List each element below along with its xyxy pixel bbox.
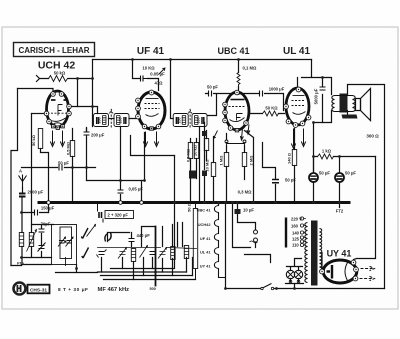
resistor box UL cathode [292, 150, 296, 166]
dial lamp 2 [294, 270, 302, 278]
wire 50pF to UBC top [206, 94, 235, 116]
resistor box 0.5M mid [188, 143, 192, 159]
trimmer arrow antenna padder [87, 225, 96, 237]
trimmer MF2 [158, 248, 167, 259]
wire x375 to UY [354, 157, 376, 260]
wire FT2 stub [339, 204, 341, 208]
tube UY41 internals [327, 263, 348, 281]
wire 50pF branch [263, 143, 276, 202]
wire x253 column [245, 131, 254, 202]
phono terminal 1 [254, 230, 258, 234]
wire 1000pF link [239, 94, 284, 111]
lamp socket dots [289, 280, 292, 283]
capacitor 1000pF [260, 91, 263, 97]
coil MF2 [171, 247, 175, 260]
tube UCH42 pins [44, 92, 71, 130]
switch contact blade upper [81, 228, 88, 239]
electrolytic 50uF no2 [335, 173, 344, 182]
title box CARISCH - LEHAR [14, 43, 95, 57]
capacitor MF1 fixed [97, 250, 107, 258]
mains switch [260, 284, 274, 289]
wire UL41 plate loop [298, 60, 332, 95]
IF transformer IFT2 secondary box [192, 114, 207, 127]
dial lamp 1 [286, 270, 294, 278]
mains voltage taps [300, 217, 303, 247]
wire component row links [98, 248, 197, 249]
wire 440pF drop [131, 233, 133, 247]
capacitor 50pF det [272, 180, 279, 183]
wire phono link [245, 243, 271, 263]
wire x144 from UF area [144, 133, 146, 181]
tube UBC41 diode arrows [240, 125, 250, 141]
wire left column x17 [11, 89, 18, 266]
IF transformer IFT1 primary box [94, 114, 109, 127]
resistor dropper box heater [193, 209, 197, 269]
wire rail drop x238 UBC plate [238, 60, 240, 93]
wire x75 drop [56, 272, 98, 274]
output transformer [332, 94, 355, 113]
capacitor 200pF IFT1 [84, 132, 90, 138]
IF transformer IFT2 tuning arrow [188, 110, 191, 128]
power transformer core [311, 221, 318, 286]
wire lamp top feed [287, 259, 303, 271]
heater chain castellation [214, 203, 225, 278]
wire osc grid column x31 [31, 114, 33, 233]
capacitor 150pF [35, 210, 38, 216]
electrolytic 50uF no1 [309, 173, 318, 182]
wire 150pF branch [22, 212, 49, 214]
IF transformer IFT2 primary box [173, 114, 188, 127]
wire x199 drop [199, 127, 201, 202]
tube UCH42 cathode arrows [50, 131, 64, 147]
wire mains bar taps [304, 219, 306, 246]
capacitor 440pF [129, 239, 135, 242]
wire MF bundle [98, 269, 196, 280]
tube UCH42 internals [48, 100, 69, 125]
tube UY41 envelope [323, 260, 357, 283]
wire x48 column [41, 149, 49, 213]
power transformer secondary winding [320, 229, 322, 271]
capacitor 70pF padder [39, 229, 45, 232]
wire mains bottom [227, 288, 385, 290]
phono terminal 2 [254, 238, 258, 242]
resistor box 2M [242, 153, 246, 167]
trimmer MF1 core arrow [140, 246, 148, 258]
bus terminal open circles [47, 201, 51, 205]
resistor box 20k mid [194, 143, 198, 159]
wire thick MF feed [155, 227, 157, 286]
node antenna input terminal [37, 76, 49, 82]
tube UBC41 envelope [225, 92, 249, 130]
capacitor 0.05uF top [141, 76, 148, 82]
tube UL41 cathode arrows [291, 129, 305, 149]
wire x244 column [244, 146, 246, 180]
trimmer arrow at 0.05uF [159, 68, 166, 75]
wire x313 reservoir [313, 157, 315, 202]
wire y224 link [32, 224, 54, 226]
wire heater chain top [218, 203, 220, 205]
wire osc switch [108, 233, 130, 242]
coil antenna primary [19, 233, 23, 247]
grid-leak terminals [225, 140, 228, 143]
switch osc wavy [105, 233, 111, 242]
ground bus (thick) [38, 201, 351, 204]
wire y156 heater feed [314, 156, 376, 158]
resistor box 10M [211, 163, 215, 177]
wire x196 drop [196, 139, 198, 179]
speaker magnet [342, 115, 358, 119]
tube UY41 output arrows [360, 266, 375, 280]
wire agc line y167 [22, 167, 96, 169]
wire UL cathode resistor [294, 129, 296, 202]
wire x225 column [225, 205, 227, 289]
tube UBC41 internals [229, 100, 246, 122]
wire rail drop x132 [133, 60, 141, 79]
wire MF verticals [102, 258, 193, 280]
tube UL41 internals [292, 96, 306, 115]
tube UF41 envelope [138, 92, 165, 129]
wire x190 resistor drop [190, 139, 192, 202]
speaker driver and cone [356, 89, 371, 121]
coil MF1 [131, 249, 135, 262]
tube UF41 internals [145, 99, 160, 117]
wire antenna column [21, 188, 24, 265]
wire antenna to rail [69, 78, 93, 80]
resistor box 50k grid1 [38, 129, 42, 149]
wire MF row tops [163, 223, 183, 247]
wire grid drop x77 [77, 79, 79, 107]
capacitor 50pF agc [59, 165, 62, 171]
publisher logo [14, 283, 50, 295]
wire UCH42 top cap lead [18, 89, 54, 92]
antenna symbol [19, 175, 27, 188]
tube UY41 pins [320, 260, 359, 281]
wire x141 drop [141, 181, 143, 202]
resistor box 3000 [204, 139, 208, 151]
tube UL41 pins [284, 87, 311, 127]
wire rail left drop [72, 60, 98, 127]
tube UF41 pins [136, 90, 161, 130]
wire x206 resistor [206, 131, 208, 161]
capacitor 0.05uF decoupling [118, 190, 124, 193]
tube UCH42 envelope [47, 91, 69, 127]
wire 50k to UL grid [249, 113, 285, 115]
capacitor 50pF UBC in [209, 91, 212, 97]
resistor R 1k heater horizontal [318, 154, 334, 159]
tube UL41 envelope [286, 88, 309, 125]
resistor R 50k UL grid horizontal [263, 111, 279, 116]
wire cap to UF grid [148, 79, 159, 91]
wire y226 osc [142, 227, 156, 247]
resistor box 1M [224, 153, 228, 167]
IF transformer IFT1 secondary box [114, 114, 129, 127]
box 2+320uF [98, 203, 134, 223]
wire UCH42 grid to left [32, 113, 44, 115]
power transformer primary winding [305, 223, 308, 283]
capacitor dark 10uF [235, 209, 241, 214]
wire 5000pF drop [322, 78, 324, 123]
wire x213 grid leak [213, 137, 215, 202]
IF transformer IFT1 tuning arrow [110, 110, 113, 128]
resistor box 0.5M screen [70, 141, 74, 157]
wire x204 IF out [204, 123, 206, 202]
wire 10uF branch [238, 204, 256, 230]
tube UF41 cathode arrows [143, 132, 158, 147]
capacitor 2000pF antenna [19, 194, 26, 197]
wire x72 column [72, 129, 74, 202]
capacitor MF2 fixed [150, 252, 156, 255]
capacitor dark tone [189, 171, 196, 179]
wire IFT1 left link [86, 129, 88, 132]
trimmer box outer [52, 225, 77, 265]
capacitor variable antenna trim [38, 243, 46, 252]
wire x41 padder column [41, 225, 43, 258]
wire x120 cap drop [120, 127, 122, 202]
wire UY41 filament link [321, 253, 323, 269]
wire lamp bottom [286, 279, 304, 289]
wire box2 bottom drop [65, 258, 67, 266]
tube UBC41 pins [223, 90, 249, 132]
coil MF3 [184, 246, 188, 259]
wire x232 column [233, 205, 251, 248]
capacitor dark IF bypass [202, 131, 207, 136]
wire y142 link [227, 143, 245, 146]
wire tuning bottom row [11, 258, 77, 273]
wire x226 column [226, 134, 228, 202]
wire UF41 grid link [109, 118, 138, 120]
wire transformer sec bottom [347, 111, 349, 115]
wire y180 row [87, 180, 145, 182]
wire B+ top rail [93, 59, 312, 61]
wire osc coil bottom [31, 247, 33, 258]
coil antenna secondary [27, 230, 37, 252]
wire x339 cap drop [339, 157, 341, 202]
fuse squiggle [250, 241, 258, 243]
wire x86 column [86, 128, 88, 181]
trimmer MF1 [118, 248, 127, 259]
resistor R 50k horizontal top-left [49, 76, 69, 82]
mains terminal bar [285, 218, 287, 248]
capacitor 5000pF [320, 87, 326, 90]
wire y155 row [131, 136, 175, 156]
resistor R 0.1M vertical UBC plate [237, 73, 240, 87]
diode arrow UBC [214, 131, 218, 139]
wire x174 long drop [174, 156, 176, 269]
capacitor dark AVC [202, 171, 207, 177]
wire B plus transformer bottom [314, 111, 332, 173]
switch contact blade lower [82, 248, 89, 259]
wire speaker top [348, 85, 385, 289]
wire rail drop x170 UF plate [171, 60, 174, 119]
